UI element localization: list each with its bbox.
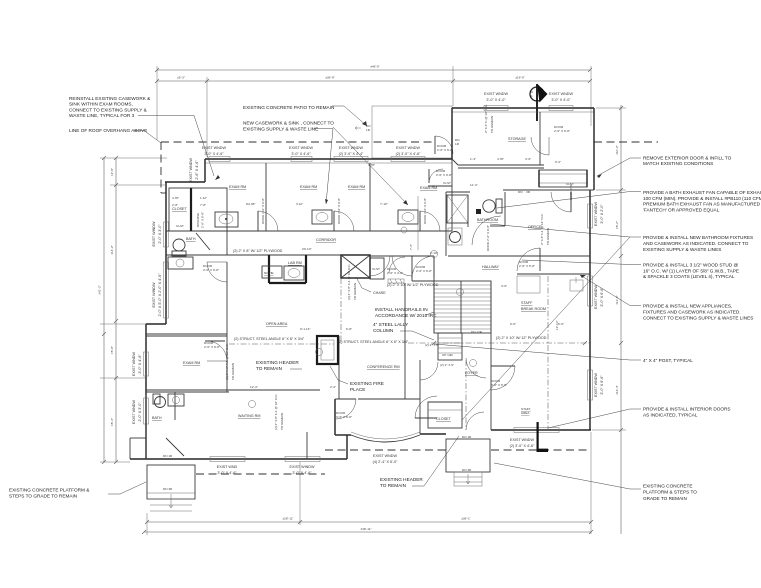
window: top wall w4 bbox=[391, 157, 425, 162]
tiny dim texts around walls bbox=[172, 157, 564, 389]
svg-text:2" X 6" C @ 16" O.C.: 2" X 6" C @ 16" O.C. bbox=[484, 104, 488, 133]
lab room niche walls bbox=[269, 255, 306, 283]
svg-text:3'-6": 3'-6" bbox=[525, 157, 531, 161]
corridor door arc right bbox=[392, 256, 412, 276]
svg-text:3'-0" X 6'-6": 3'-0" X 6'-6" bbox=[600, 287, 604, 307]
door arc hallway bbox=[517, 248, 540, 271]
svg-text:STORAGE: STORAGE bbox=[508, 137, 527, 141]
svg-text:±36'-1": ±36'-1" bbox=[461, 517, 471, 521]
svg-text:3'-0" X 6'-6": 3'-0" X 6'-6" bbox=[600, 375, 604, 395]
svg-text:±8'-4": ±8'-4" bbox=[110, 418, 114, 426]
svg-text:EXIST WNDW: EXIST WNDW bbox=[549, 92, 573, 96]
annotation: concrete platform left bbox=[9, 482, 146, 498]
svg-text:TO REMAIN: TO REMAIN bbox=[380, 483, 406, 488]
svg-text:3'-0" X 4'-0": 3'-0" X 4'-0" bbox=[486, 98, 506, 102]
fireplace bbox=[317, 336, 338, 364]
svg-text:CORRIDOR: CORRIDOR bbox=[316, 238, 336, 242]
svg-text:EXIST WNDW: EXIST WNDW bbox=[189, 158, 193, 182]
svg-text:PLACE: PLACE bbox=[350, 387, 365, 392]
svg-text:EXIST WNDW: EXIST WNDW bbox=[484, 92, 508, 96]
svg-text:INSTALL HANDRAILS IN: INSTALL HANDRAILS IN bbox=[375, 307, 428, 312]
mid door arc to conference bbox=[370, 256, 390, 276]
conference right wall bbox=[404, 283, 406, 399]
svg-text:EXIST WNDW: EXIST WNDW bbox=[339, 146, 363, 150]
svg-text:TO REMAIN: TO REMAIN bbox=[280, 413, 284, 430]
hallway to corridor walls upper-mid bbox=[412, 256, 434, 281]
foyer and closet lower bbox=[358, 360, 462, 434]
left extension lines bbox=[100, 158, 167, 462]
svg-text:WAITING RM: WAITING RM bbox=[238, 414, 260, 418]
svg-text:'FANTECH' OR APPROVED EQUAL: 'FANTECH' OR APPROVED EQUAL bbox=[643, 207, 720, 212]
window: storage top w1 bbox=[484, 106, 508, 111]
window: bottom wall w1 bbox=[210, 457, 245, 462]
door arc big right of corridor bbox=[412, 256, 434, 278]
label office bbox=[528, 225, 542, 229]
svg-text:(2) 2" X 10" W/ 12" PLYWOOD: (2) 2" X 10" W/ 12" PLYWOOD bbox=[496, 336, 547, 340]
svg-text:4.78": 4.78" bbox=[172, 196, 179, 200]
open area / conference divider dashdot bbox=[229, 278, 591, 345]
svg-text:DN 3R: DN 3R bbox=[462, 468, 472, 472]
annotation: existing header to remain (bottom) bbox=[380, 436, 459, 488]
svg-text:GRADE TO REMAIN: GRADE TO REMAIN bbox=[643, 496, 687, 501]
svg-text:(2) 3'-0" X 4'-4": (2) 3'-0" X 4'-4" bbox=[339, 152, 364, 156]
svg-text:3'-0" X 2'-0": 3'-0" X 2'-0" bbox=[600, 204, 604, 224]
left rotated window labels bbox=[132, 158, 199, 424]
closet right of chase bbox=[370, 258, 384, 279]
annotation: existing fire place bbox=[330, 366, 384, 392]
svg-text:3'-0" X 4'-6": 3'-0" X 4'-6" bbox=[292, 471, 312, 475]
label closet bbox=[172, 207, 188, 211]
bottom window labels bbox=[217, 438, 535, 475]
annotation: install handrails bbox=[375, 307, 437, 318]
svg-text:MATCH EXISTING CONDITIONS: MATCH EXISTING CONDITIONS bbox=[643, 161, 713, 166]
label niche bbox=[264, 271, 274, 275]
svg-text:CLST: CLST bbox=[176, 224, 184, 228]
section marker circle bbox=[530, 84, 548, 122]
svg-text:EXIST WNDW: EXIST WNDW bbox=[132, 400, 136, 424]
svg-text:±5'-8": ±5'-8" bbox=[110, 346, 114, 354]
svg-text:3'-0" X 4'-6": 3'-0" X 4'-6" bbox=[138, 354, 142, 374]
svg-text:2'-6" X 6'-8": 2'-6" X 6'-8" bbox=[436, 173, 452, 177]
door arc exam3 bbox=[420, 211, 440, 231]
right dimension line bbox=[592, 105, 626, 534]
svg-text:12'-4": 12'-4" bbox=[250, 385, 258, 389]
exam room mid-left bottom wall / waiting top bbox=[146, 390, 320, 459]
svg-text:DN 1R: DN 1R bbox=[163, 454, 173, 458]
stair right wall down to foyer bbox=[434, 281, 491, 430]
annotation: plywood header right bbox=[496, 336, 547, 340]
svg-text:DN 3R: DN 3R bbox=[163, 487, 173, 491]
patio outline bbox=[355, 106, 452, 158]
svg-text:1'-4": 1'-4" bbox=[470, 157, 476, 161]
svg-text:11'-4": 11'-4" bbox=[470, 183, 478, 187]
svg-text:2'-0" X 3'-0": 2'-0" X 3'-0" bbox=[138, 402, 142, 422]
svg-text:2'-0" X 3'-0": 2'-0" X 3'-0" bbox=[158, 224, 162, 244]
svg-text:BATH: BATH bbox=[152, 416, 162, 420]
svg-text:4.78": 4.78" bbox=[497, 157, 504, 161]
svg-text:NEW CASEWORK & SINK , CONNECT: NEW CASEWORK & SINK , CONNECT TO bbox=[243, 121, 334, 126]
stair block bbox=[434, 281, 491, 333]
black interior door mark bbox=[537, 422, 549, 452]
door arc exam mid-left bbox=[205, 341, 227, 361]
svg-text:TO REMAIN: TO REMAIN bbox=[490, 116, 494, 133]
svg-text:±28'-11": ±28'-11" bbox=[282, 517, 293, 521]
label chase bbox=[356, 277, 386, 295]
svg-text:2'-0" X 6'-8": 2'-0" X 6'-8" bbox=[204, 345, 220, 349]
svg-text:2'-6" X 6'-8": 2'-6" X 6'-8" bbox=[554, 129, 570, 133]
svg-text:EXISTING CONCRETE PATIO TO REM: EXISTING CONCRETE PATIO TO REMAIN bbox=[243, 105, 334, 110]
svg-text:±8'-2": ±8'-2" bbox=[615, 221, 619, 229]
annotation: plywood header mid bbox=[387, 283, 439, 287]
foyer door arcs bbox=[420, 358, 486, 430]
door arc open area bbox=[207, 262, 227, 282]
office door arc bbox=[551, 192, 571, 212]
svg-text:AS INDICATED, TYPICAL: AS INDICATED, TYPICAL bbox=[643, 413, 698, 418]
svg-text:(2) 2" X 8" F.J. @ 16" O.C.: (2) 2" X 8" F.J. @ 16" O.C. bbox=[274, 394, 278, 430]
svg-text:(2) 2" X 6": (2) 2" X 6" bbox=[440, 363, 454, 367]
svg-text:9'-1.13": 9'-1.13" bbox=[300, 327, 310, 331]
svg-text:EXIST WNDW: EXIST WNDW bbox=[202, 146, 226, 150]
label up/dn stairs bbox=[425, 330, 483, 367]
exam room mid-left top wall bbox=[146, 334, 227, 336]
svg-text:EXAM RM: EXAM RM bbox=[420, 186, 437, 190]
annotation: 4x4 post bbox=[434, 344, 693, 363]
storage interior walls bbox=[452, 112, 594, 190]
svg-text:TO REMAIN: TO REMAIN bbox=[353, 283, 357, 300]
svg-text:UP 14R: UP 14R bbox=[442, 353, 454, 357]
top dimension line overall bbox=[155, 65, 592, 73]
wall: right side bbox=[589, 190, 591, 430]
wall: left block top bbox=[205, 159, 452, 163]
bathroom upper right bbox=[418, 192, 502, 256]
svg-text:5'-6": 5'-6" bbox=[558, 322, 564, 326]
corridor top wall bbox=[166, 230, 452, 232]
door arc to patio bbox=[435, 136, 460, 154]
svg-text:AREA: AREA bbox=[521, 411, 530, 415]
annotation: bath exhaust fan bbox=[497, 190, 761, 212]
svg-text:1.12": 1.12" bbox=[200, 196, 207, 200]
annotation: steel lally column bbox=[373, 322, 434, 340]
svg-text:16" O.C. W/ (1) LAYER OF 5/8": 16" O.C. W/ (1) LAYER OF 5/8" G.W.B., TA… bbox=[643, 268, 739, 273]
window: bottom right wall bbox=[514, 428, 559, 433]
svg-text:2'-6" X 6'-8": 2'-6" X 6'-8" bbox=[416, 269, 432, 273]
svg-text:7'-10": 7'-10" bbox=[380, 202, 388, 206]
svg-text:LAB RM: LAB RM bbox=[288, 261, 302, 265]
bath lower-left bbox=[146, 392, 184, 459]
svg-text:9'-2": 9'-2" bbox=[555, 160, 561, 164]
svg-text:PROVIDE & INSTALL INTERIOR DOO: PROVIDE & INSTALL INTERIOR DOORS bbox=[643, 407, 731, 412]
label closet lower bbox=[436, 417, 452, 421]
svg-text:EXIST WND: EXIST WND bbox=[217, 465, 238, 469]
window: left wall w1 (2-0x3-0) bbox=[164, 222, 169, 247]
door arc exam2 bbox=[334, 211, 354, 231]
svg-text:(2) 2" X 8" F.J. @ 16" O.C.: (2) 2" X 8" F.J. @ 16" O.C. bbox=[347, 264, 351, 300]
svg-text:±2'-8": ±2'-8" bbox=[110, 168, 114, 176]
svg-text:ACCORDANCE W/ 2015 IRC: ACCORDANCE W/ 2015 IRC bbox=[375, 313, 437, 318]
label lab rm bbox=[288, 261, 302, 265]
svg-text:±46'-5": ±46'-5" bbox=[370, 65, 380, 69]
left dimension lines bbox=[98, 156, 119, 464]
svg-text:AND CASEWORK AS INDICATED. CON: AND CASEWORK AS INDICATED. CONNECT TO bbox=[643, 241, 749, 246]
exam4 closet bbox=[428, 169, 452, 186]
svg-text:4" X 4" POST, TYPICAL: 4" X 4" POST, TYPICAL bbox=[643, 358, 693, 363]
office walls bbox=[490, 192, 505, 226]
svg-text:CLOSET: CLOSET bbox=[172, 207, 188, 211]
roof overhang dashed line top bbox=[161, 142, 658, 193]
window: top wall w1 bbox=[209, 157, 230, 162]
top extension lines bbox=[157, 66, 591, 157]
svg-text:TO REMAIN: TO REMAIN bbox=[231, 363, 235, 380]
svg-text:3'-0" X 4'-6": 3'-0" X 4'-6" bbox=[217, 471, 237, 475]
window: left wall w2 bbox=[164, 262, 169, 318]
svg-text:CLST: CLST bbox=[372, 267, 380, 271]
DN 1R at storage steps bbox=[518, 190, 531, 194]
label bath upper bbox=[186, 237, 196, 241]
exam room divider 3 bbox=[451, 159, 453, 231]
svg-text:(4) 2'-4" X 5'-0": (4) 2'-4" X 5'-0" bbox=[373, 460, 398, 464]
svg-text:DN 1R: DN 1R bbox=[462, 435, 472, 439]
storage closet bbox=[539, 170, 587, 187]
label exam rm mid-left bbox=[183, 361, 200, 365]
label staff break room bbox=[521, 301, 546, 311]
svg-text:& SPACKLE 3 COATS (LEVEL 4), T: & SPACKLE 3 COATS (LEVEL 4), TYPICAL bbox=[643, 274, 735, 279]
svg-text:REINSTALL EXISTING CASEWORK &: REINSTALL EXISTING CASEWORK & bbox=[69, 96, 151, 101]
svg-text:EXISTING CONCRETE PLATFORM &: EXISTING CONCRETE PLATFORM & bbox=[9, 488, 90, 493]
annotation: wood stud bbox=[522, 260, 739, 279]
svg-text:3.12": 3.12" bbox=[296, 202, 303, 206]
exam room sink 2 bbox=[312, 210, 332, 224]
svg-text:EXAM RM: EXAM RM bbox=[300, 185, 317, 189]
svg-text:EXIST WNDW: EXIST WNDW bbox=[594, 373, 598, 397]
scattered door labels bbox=[203, 125, 573, 419]
svg-text:2'-6" X 6'-8": 2'-6" X 6'-8" bbox=[519, 264, 535, 268]
svg-text:(2) 2" X 8" F.J. @ 16" O.C.: (2) 2" X 8" F.J. @ 16" O.C. bbox=[225, 344, 229, 380]
svg-text:EXIST WINDW: EXIST WINDW bbox=[152, 221, 156, 246]
annotation: plywood header left bbox=[233, 249, 283, 253]
label storage bbox=[508, 137, 527, 141]
window: left wall w4 bbox=[144, 398, 149, 424]
staff area door arc bbox=[491, 366, 515, 390]
svg-text:EXIST WNDW: EXIST WNDW bbox=[373, 454, 397, 458]
DN 1R foyer bbox=[163, 435, 472, 458]
svg-text:3'-0" X 4'-6": 3'-0" X 4'-6" bbox=[291, 152, 311, 156]
annotation: existing concrete patio bbox=[243, 105, 367, 126]
svg-text:±10'-2": ±10'-2" bbox=[615, 145, 619, 155]
svg-text:2'-6" X 4'-6": 2'-6" X 4'-6" bbox=[387, 271, 403, 275]
annotation: interior doors bbox=[548, 407, 731, 429]
annotation: reinstall casework bbox=[69, 96, 220, 180]
exam room divider 2 bbox=[369, 163, 371, 231]
svg-text:EXIST WNDW: EXIST WNDW bbox=[510, 438, 534, 442]
exam room sink 1 bbox=[215, 212, 238, 227]
svg-text:2'-8": 2'-8" bbox=[172, 203, 178, 207]
svg-text:NICHE: NICHE bbox=[264, 271, 274, 275]
svg-text:±19'-5": ±19'-5" bbox=[515, 76, 525, 80]
svg-text:1: 1 bbox=[531, 94, 533, 98]
annotation: new casework and sink bbox=[243, 121, 408, 206]
svg-text:REMOVE EXTERIOR DOOR & INFILL: REMOVE EXTERIOR DOOR & INFILL TO bbox=[643, 156, 732, 161]
stair lower flight bbox=[438, 333, 462, 360]
circles markers bbox=[249, 227, 477, 408]
label staff area bbox=[521, 407, 531, 415]
svg-text:WASTE LINE, TYPICAL FOR 3: WASTE LINE, TYPICAL FOR 3 bbox=[69, 113, 135, 118]
svg-text:DOOR 2'-6" X 6'-8": DOOR 2'-6" X 6'-8" bbox=[337, 198, 341, 224]
annotation: concrete platform right bbox=[494, 463, 697, 501]
svg-text:EXISTING CONCRETE: EXISTING CONCRETE bbox=[643, 484, 692, 489]
svg-text:±5'-3": ±5'-3" bbox=[177, 76, 185, 80]
open area left wall bbox=[226, 262, 228, 392]
label bathroom bbox=[477, 218, 498, 222]
svg-text:4" STEEL LALLY: 4" STEEL LALLY bbox=[373, 322, 409, 327]
waiting room door bbox=[415, 396, 437, 418]
label conference rm bbox=[367, 365, 400, 369]
top row window labels bbox=[202, 146, 421, 156]
conference room left wall bbox=[335, 336, 339, 399]
annotation: line of roof overhang bbox=[69, 128, 161, 143]
svg-text:4.78": 4.78" bbox=[368, 163, 375, 167]
svg-text:(2) 3'-0" X 4'-6": (2) 3'-0" X 4'-6" bbox=[396, 152, 421, 156]
svg-text:3'-6": 3'-6" bbox=[501, 284, 507, 288]
annotation: bathroom fixtures bbox=[462, 224, 753, 420]
svg-text:EXAM RM: EXAM RM bbox=[348, 185, 365, 189]
svg-text:DOOR 2'-6" X 6'-8": DOOR 2'-6" X 6'-8" bbox=[423, 198, 427, 224]
svg-text:CHASE: CHASE bbox=[373, 291, 386, 295]
svg-text:±41'-2": ±41'-2" bbox=[98, 285, 102, 295]
svg-text:3'-0" X 4'-6": 3'-0" X 4'-6" bbox=[204, 152, 224, 156]
label corridor bbox=[316, 238, 336, 242]
svg-text:BATH: BATH bbox=[186, 237, 196, 241]
svg-text:EXIST WNDW: EXIST WNDW bbox=[396, 146, 420, 150]
svg-text:BREAK ROOM: BREAK ROOM bbox=[521, 307, 546, 311]
porch: front steps bbox=[446, 439, 490, 486]
exam room divider 1 bbox=[265, 163, 267, 231]
svg-text:CONFERENCE RM: CONFERENCE RM bbox=[367, 365, 400, 369]
svg-text:3'-0" X 6'-8": 3'-0" X 6'-8" bbox=[491, 383, 507, 387]
svg-text:EXISTING FIRE: EXISTING FIRE bbox=[350, 381, 384, 386]
svg-text:EXIST WNDW: EXIST WNDW bbox=[132, 352, 136, 376]
window: right wall w2 bbox=[588, 370, 593, 400]
svg-text:6'-6": 6'-6" bbox=[510, 322, 516, 326]
window: left wall w3 bbox=[144, 352, 149, 376]
label bath lower bbox=[152, 416, 162, 420]
svg-text:(2) 2" X 10" W/ 1/2" PLYWOOD: (2) 2" X 10" W/ 1/2" PLYWOOD bbox=[387, 283, 439, 287]
annotation: remove exterior door bbox=[597, 156, 732, 179]
storage window labels bbox=[484, 92, 573, 102]
svg-text:DOOR 2'-6" X 6'-8": DOOR 2'-6" X 6'-8" bbox=[486, 225, 490, 251]
svg-text:FOYER: FOYER bbox=[465, 371, 478, 375]
window: right wall w1 bbox=[588, 276, 593, 306]
svg-text:(2) STRUCT. STEEL ANGLE 6" X 6: (2) STRUCT. STEEL ANGLE 6" X 6" X 3/4" bbox=[338, 340, 409, 344]
svg-text:STAFF: STAFF bbox=[521, 301, 533, 305]
window: right wall w0 bbox=[588, 204, 593, 228]
svg-text:(2) STRUCT. STEEL ANGLE 6" X 6: (2) STRUCT. STEEL ANGLE 6" X 6" X 3/4" bbox=[234, 337, 305, 341]
wall: bottom left jog bbox=[130, 438, 347, 459]
svg-text:EXAM RM: EXAM RM bbox=[229, 185, 246, 189]
storage block outer walls bbox=[452, 108, 594, 190]
svg-text:3'-0" X 4'-0": 3'-0" X 4'-0" bbox=[551, 98, 571, 102]
svg-text:EXIST WNDW: EXIST WNDW bbox=[594, 202, 598, 226]
svg-text:2'-6" X 6'-8": 2'-6" X 6'-8" bbox=[203, 268, 219, 272]
bottom dimension lines bbox=[142, 432, 593, 535]
svg-text:EXAM RM: EXAM RM bbox=[183, 361, 200, 365]
door arc exam1 bbox=[258, 211, 278, 231]
svg-text:PROVIDE & INSTALL 3 1/2" WOOD: PROVIDE & INSTALL 3 1/2" WOOD STUD @ bbox=[643, 263, 738, 268]
svg-text:PREMIUM BATH EXHAUST FAN AS MA: PREMIUM BATH EXHAUST FAN AS MANUFACTURED… bbox=[643, 202, 761, 207]
svg-text:OPENING: OPENING bbox=[196, 212, 200, 227]
svg-text:(2) 2" X 6": (2) 2" X 6" bbox=[425, 343, 439, 347]
svg-text:3'-0" X 6'-8": 3'-0" X 6'-8" bbox=[336, 415, 352, 419]
window: top wall w2 bbox=[291, 157, 312, 162]
storage door arc bbox=[531, 137, 549, 155]
label exam rm 2 bbox=[300, 185, 317, 189]
label hallway bbox=[482, 265, 499, 269]
exam room sink 3 bbox=[398, 210, 418, 224]
svg-text:PROVIDE & INSTALL NEW APPLIANC: PROVIDE & INSTALL NEW APPLIANCES, bbox=[643, 304, 732, 309]
svg-text:CLOSET: CLOSET bbox=[436, 417, 452, 421]
right rotated window labels bbox=[594, 202, 604, 397]
annotation: new appliances bbox=[580, 275, 753, 321]
label waiting rm bbox=[238, 414, 260, 418]
svg-text:20'-10": 20'-10" bbox=[302, 247, 312, 251]
annotation: struct steel angle mid bbox=[338, 340, 409, 344]
svg-text:PROVIDE A BATH EXHAUST FAN CAP: PROVIDE A BATH EXHAUST FAN CAPABLE OF EX… bbox=[643, 190, 761, 195]
svg-text:CLST: CLST bbox=[443, 181, 451, 185]
corridor door arc mid (2-6 x 4-6) bbox=[387, 257, 405, 283]
left platform steps bbox=[147, 465, 195, 511]
svg-text:FIXTURES AND CASEWORK AS INDIC: FIXTURES AND CASEWORK AS INDICATED. bbox=[643, 310, 741, 315]
label exam rm 3 bbox=[348, 185, 365, 189]
roof overhang dashed line bottom bbox=[196, 450, 591, 474]
label foyer bbox=[465, 371, 478, 375]
svg-text:7'-8": 7'-8" bbox=[200, 203, 206, 207]
svg-text:±14'-2": ±14'-2" bbox=[110, 245, 114, 255]
svg-text:CONNECT TO EXISTING SUPPLY &: CONNECT TO EXISTING SUPPLY & bbox=[69, 107, 148, 112]
svg-text:±36'-9": ±36'-9" bbox=[325, 76, 335, 80]
wall: top-left step bbox=[146, 159, 205, 459]
svg-text:PROVIDE & INSTALL NEW BATHROOM: PROVIDE & INSTALL NEW BATHROOM FIXTURES bbox=[643, 235, 753, 240]
svg-text:CONNECT TO EXISTING SUPPLY & W: CONNECT TO EXISTING SUPPLY & WASTE LINES bbox=[643, 316, 753, 321]
svg-text:6'-8": 6'-8" bbox=[346, 327, 352, 331]
annotation: existing header to remain (center) bbox=[256, 360, 302, 371]
svg-text:DN 12R: DN 12R bbox=[471, 330, 483, 334]
svg-text:BATHROOM: BATHROOM bbox=[477, 218, 498, 222]
svg-text:EXISTING SUPPLY & WASTE LINES: EXISTING SUPPLY & WASTE LINES bbox=[643, 247, 721, 252]
niche casework bbox=[262, 266, 282, 278]
corridor bottom wall bbox=[227, 255, 590, 256]
svg-text:DOOR 2'-6": DOOR 2'-6" bbox=[569, 184, 573, 200]
svg-text:100 CFM (MIN). PROVIDE & INSTA: 100 CFM (MIN). PROVIDE & INSTALL #PB110 … bbox=[643, 196, 761, 201]
svg-text:HALLWAY: HALLWAY bbox=[482, 265, 499, 269]
scattered small dims bbox=[225, 104, 559, 430]
front door arc bbox=[336, 399, 356, 419]
svg-text:EXIST WNDW: EXIST WNDW bbox=[289, 146, 313, 150]
annotation: struct steel angle left bbox=[234, 337, 305, 341]
svg-text:2'-6" X 6'-8": 2'-6" X 6'-8" bbox=[201, 212, 205, 228]
svg-text:2" X 8" F.J. @ 16" O.C.: 2" X 8" F.J. @ 16" O.C. bbox=[540, 213, 544, 245]
svg-text:2'-2": 2'-2" bbox=[330, 385, 336, 389]
chase with X bbox=[341, 255, 370, 278]
svg-text:±12'-4": ±12'-4" bbox=[615, 385, 619, 395]
closet top-left walls bbox=[169, 188, 227, 255]
label exam rm 4 bbox=[420, 186, 437, 190]
svg-text:TO REMAIN: TO REMAIN bbox=[546, 228, 550, 245]
label open area bbox=[266, 322, 288, 326]
svg-text:8'4.38": 8'4.38" bbox=[246, 202, 255, 206]
svg-text:OPEN AREA: OPEN AREA bbox=[266, 322, 288, 326]
hallway bottom wall and break room casework bbox=[466, 274, 590, 430]
svg-text:EXISTING SUPPLY & WASTE LINE: EXISTING SUPPLY & WASTE LINE bbox=[243, 126, 318, 131]
svg-text:2'-0" X 5'-0" X 2'-0" X 4'-6": 2'-0" X 5'-0" X 2'-0" X 4'-6" bbox=[158, 273, 162, 317]
